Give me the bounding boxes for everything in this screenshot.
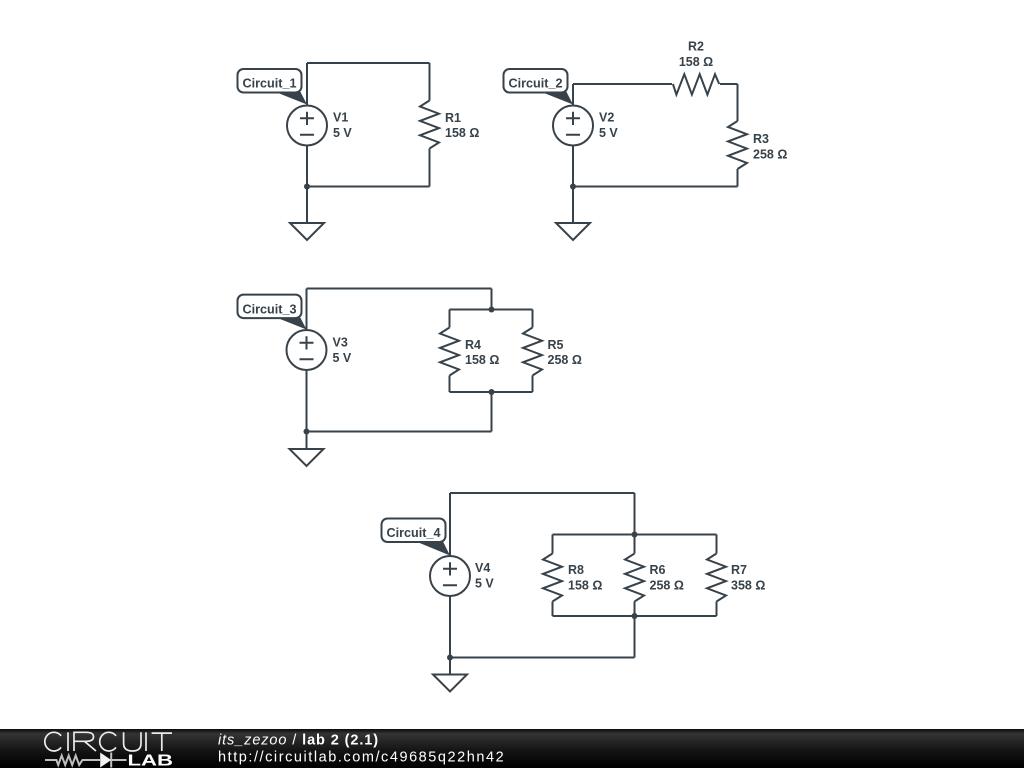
node junction circuit4 ground [447, 655, 453, 661]
wire bottom (ground net) [307, 186, 430, 188]
svg-text:R2: R2 [688, 40, 704, 54]
svg-text:358 Ω: 358 Ω [731, 579, 765, 593]
svg-text:R6: R6 [650, 563, 666, 577]
wire V2 bottom lead [572, 146, 574, 187]
node junction circuit2 [570, 184, 576, 190]
svg-text:R8: R8 [568, 563, 584, 577]
resistor R1 [420, 63, 439, 187]
logo diode triangle [100, 753, 111, 768]
svg-text:5 V: 5 V [475, 577, 494, 591]
svg-text:158 Ω: 158 Ω [679, 55, 713, 69]
svg-text:Circuit_2: Circuit_2 [509, 76, 563, 91]
label R1 value [445, 111, 479, 140]
svg-text:5 V: 5 V [599, 126, 618, 140]
svg-text:V4: V4 [475, 561, 490, 575]
node junction bottom bar circuit3 [489, 389, 495, 395]
wire bottom circuit2 [573, 186, 738, 188]
svg-text:258 Ω: 258 Ω [650, 579, 684, 593]
svg-text:R5: R5 [548, 338, 564, 352]
svg-text:V1: V1 [333, 111, 348, 125]
footer background bar [0, 729, 1024, 768]
resistor R5 [523, 310, 542, 393]
svg-text:V3: V3 [333, 336, 348, 350]
svg-text:http://circuitlab.com/c49685q2: http://circuitlab.com/c49685q22hn42 [218, 750, 505, 766]
wire bottom circuit3 [307, 431, 492, 433]
svg-text:Circuit_4: Circuit_4 [387, 525, 442, 540]
label Circuit_1 callout [238, 69, 308, 105]
ground G2 [556, 187, 590, 241]
node junction top bar circuit3 [489, 307, 495, 313]
wire right drop to parallel bar [491, 289, 493, 310]
label R5 value [548, 338, 582, 367]
svg-text:R4: R4 [465, 338, 481, 352]
node junction bottom bar circuit4 [632, 613, 638, 619]
wire V3 top lead [306, 289, 308, 331]
label Circuit_3 callout [238, 295, 307, 330]
svg-text:258 Ω: 258 Ω [548, 353, 582, 367]
resistor R3 [728, 121, 747, 187]
voltage source V3 [287, 330, 327, 370]
label V2 value [599, 111, 618, 141]
label V1 value [333, 111, 352, 141]
wire drop to bottom circuit4 [634, 616, 636, 658]
ground G3 [290, 432, 324, 467]
svg-text:Circuit_3: Circuit_3 [243, 302, 297, 317]
wire parallel bottom bar circuit4 [553, 615, 717, 617]
wire parallel bottom bar [450, 391, 533, 393]
svg-text:R1: R1 [445, 111, 461, 125]
resistor R8 [543, 535, 562, 617]
label R3 value [753, 132, 787, 162]
wire V4 bottom lead [449, 596, 451, 658]
svg-text:158 Ω: 158 Ω [445, 126, 479, 140]
wire parallel top bar [450, 309, 533, 311]
label V3 value [333, 336, 352, 366]
label R7 value [731, 563, 765, 593]
wire right drop to parallel bar circuit4 [634, 493, 636, 535]
svg-text:its_zezoo / lab 2 (2.1): its_zezoo / lab 2 (2.1) [218, 733, 379, 749]
voltage source V2 [553, 106, 593, 146]
voltage source V1 [287, 106, 327, 146]
logo resistor-diode symbol [45, 753, 127, 768]
wire drop from parallel to bottom [491, 392, 493, 432]
wire top circuit3 [307, 288, 492, 290]
node junction circuit1 [304, 184, 310, 190]
node junction top bar circuit4 [632, 532, 638, 538]
svg-text:Circuit_1: Circuit_1 [243, 76, 297, 91]
wire top circuit4 [450, 492, 635, 494]
resistor R6 [625, 535, 644, 617]
svg-text:158 Ω: 158 Ω [568, 579, 602, 593]
wire V2 top lead [572, 84, 574, 106]
svg-text:LAB: LAB [128, 753, 174, 768]
svg-text:158 Ω: 158 Ω [465, 353, 499, 367]
ground G1 [290, 187, 324, 241]
label Circuit_2 callout [504, 69, 574, 105]
svg-text:R7: R7 [731, 563, 747, 577]
wire top to R2 [573, 83, 672, 85]
voltage source V4 [430, 556, 470, 596]
svg-text:5 V: 5 V [333, 126, 352, 140]
label Circuit_4 callout [382, 519, 451, 556]
label R8 value [568, 563, 602, 593]
resistor R2 [673, 74, 738, 94]
svg-text:5 V: 5 V [333, 351, 352, 365]
ground G4 [433, 658, 467, 692]
svg-text:258 Ω: 258 Ω [753, 148, 787, 162]
resistor R7 [707, 535, 726, 617]
logo wordmark CIRCUIT [45, 732, 172, 751]
svg-text:R3: R3 [753, 132, 769, 146]
wire V1 bottom lead [306, 146, 308, 187]
wire V4 top lead [449, 493, 451, 556]
label R2 value [679, 40, 713, 70]
label R4 value [465, 338, 499, 367]
wire V1 top lead [306, 63, 308, 106]
wire right column top [737, 84, 739, 121]
label R6 value [650, 563, 684, 593]
wire V3 bottom lead [306, 370, 308, 432]
wire parallel top bar circuit4 [553, 534, 717, 536]
svg-text:V2: V2 [599, 111, 614, 125]
wire top (V1 plus node to R1 top) [307, 62, 430, 64]
wire bottom circuit4 [450, 657, 635, 659]
resistor R4 [440, 310, 459, 393]
node junction circuit3 ground [304, 429, 310, 435]
label V4 value [475, 561, 494, 591]
